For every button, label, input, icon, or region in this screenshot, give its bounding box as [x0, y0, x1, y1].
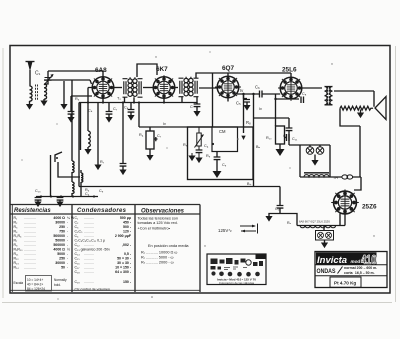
- svg-text:C₁₀: C₁₀: [275, 207, 281, 211]
- svg-text:C₇: C₇: [113, 107, 118, 111]
- svg-text:-: -: [67, 261, 69, 265]
- svg-text:TH: TH: [333, 176, 338, 180]
- svg-text:,002 -: ,002 -: [122, 243, 132, 247]
- svg-text:2 900 μμF: 2 900 μμF: [115, 234, 132, 238]
- svg-text:½: ½: [67, 248, 70, 252]
- svg-text:500000: 500000: [53, 234, 65, 238]
- svg-text:En posición onda media: En posición onda media: [148, 244, 189, 248]
- svg-text:Rₔ ........... 2000 - ω: Rₔ ........... 2000 - ω: [141, 261, 174, 265]
- svg-text:Pt 4.70 Kg: Pt 4.70 Kg: [334, 281, 356, 286]
- svg-text:C₄: C₄: [85, 192, 90, 196]
- svg-text:Todas las tensiones son: Todas las tensiones son: [138, 217, 179, 221]
- svg-text:250: 250: [59, 225, 65, 229]
- svg-text:..........: ..........: [84, 230, 94, 234]
- svg-text:-: -: [67, 252, 69, 256]
- svg-text:C₈: C₈: [302, 92, 307, 96]
- svg-text:120 -: 120 -: [123, 230, 132, 234]
- svg-text:C₈: C₈: [124, 106, 129, 110]
- svg-text:-: -: [67, 225, 69, 229]
- svg-text:Bₐ: Bₐ: [256, 145, 261, 149]
- svg-text:125V∿: 125V∿: [218, 228, 232, 233]
- svg-text:bold.: bold.: [54, 283, 61, 287]
- svg-text:R₁₃: R₁₃: [14, 261, 20, 265]
- svg-text:30000: 30000: [55, 261, 65, 265]
- svg-text:............: ............: [24, 239, 36, 243]
- svg-text:normal 200 – 600 m.: normal 200 – 600 m.: [344, 266, 377, 270]
- svg-text:............: ............: [24, 221, 36, 225]
- svg-text:Observaciones: Observaciones: [141, 209, 185, 215]
- svg-text:R₂: R₂: [14, 221, 19, 225]
- svg-text:-: -: [67, 243, 69, 247]
- svg-text:corta 16,5 – 50 m.: corta 16,5 – 50 m.: [344, 271, 375, 275]
- svg-text:-: -: [67, 230, 69, 234]
- svg-text:R₄: R₄: [14, 230, 19, 234]
- svg-text:C₉: C₉: [99, 189, 104, 193]
- svg-text:C₉: C₉: [222, 163, 227, 167]
- svg-text:C₁₆: C₁₆: [75, 261, 81, 265]
- svg-text:C₁₃ galvanico 200 -50v: C₁₃ galvanico 200 -50v: [75, 248, 111, 252]
- svg-text:R₇: R₇: [14, 239, 19, 243]
- svg-text:............: ............: [24, 225, 36, 229]
- svg-text:............: ............: [24, 230, 36, 234]
- svg-text:-: -: [67, 221, 69, 225]
- svg-text:-: -: [67, 257, 69, 261]
- svg-text:Resistencias: Resistencias: [14, 208, 51, 214]
- svg-text:150 -: 150 -: [123, 280, 132, 284]
- svg-text:C₁₃: C₁₃: [35, 189, 41, 193]
- svg-text:Condensadores: Condensadores: [77, 208, 127, 214]
- svg-text:Iv: Iv: [240, 88, 244, 93]
- svg-text:..........: ..........: [84, 216, 94, 220]
- svg-text:C₁₄: C₁₄: [75, 252, 81, 256]
- svg-text:C₁₇: C₁₇: [75, 266, 81, 270]
- svg-text:C: C: [283, 134, 286, 138]
- svg-text:6Q7: 6Q7: [222, 65, 235, 72]
- svg-text:mod: mod: [351, 259, 361, 264]
- svg-text:C₁: C₁: [35, 71, 41, 77]
- svg-text:6K7: 6K7: [156, 66, 168, 73]
- svg-text:C₁₅: C₁₅: [75, 257, 81, 261]
- svg-text:............: ............: [24, 252, 36, 256]
- svg-text:..........: ..........: [84, 266, 94, 270]
- svg-text:............: ............: [24, 234, 36, 238]
- svg-text:R₃: R₃: [14, 225, 19, 229]
- svg-text:C₃: C₃: [75, 225, 80, 229]
- svg-text:..........: ..........: [84, 280, 94, 284]
- svg-text:Escala: Escala: [14, 281, 24, 285]
- svg-text:..........: ..........: [84, 257, 94, 261]
- svg-text:..........: ..........: [84, 243, 94, 247]
- svg-text:40 = 84+2+: 40 = 84+2+: [27, 283, 43, 287]
- svg-text:C₇: C₇: [157, 134, 162, 138]
- svg-text:Rₐ: Rₐ: [287, 221, 292, 225]
- svg-text:C₂: C₂: [75, 221, 80, 225]
- svg-text:4000 Ω: 4000 Ω: [53, 248, 65, 252]
- svg-text:..........: ..........: [84, 234, 94, 238]
- svg-text:250: 250: [59, 257, 65, 261]
- svg-text:Colocación de las válvulas: Colocación de las válvulas: [219, 281, 255, 285]
- svg-text:10 = 14+4+: 10 = 14+4+: [27, 278, 43, 282]
- svg-text:5000: 5000: [57, 252, 65, 256]
- svg-text:-: -: [67, 234, 69, 238]
- svg-text:R₅: R₅: [75, 97, 80, 101]
- svg-text:R₁₁: R₁₁: [14, 252, 20, 256]
- svg-text:C₇C₈C₉C₁₀C₁₁ 0,1 μ: C₇C₈C₉C₁₀C₁₁ 0,1 μ: [75, 239, 106, 243]
- svg-text:C₁₈: C₁₈: [75, 270, 81, 274]
- svg-text:-: -: [67, 266, 69, 270]
- svg-text:50: 50: [61, 266, 65, 270]
- svg-text:R₉: R₉: [206, 154, 211, 158]
- svg-text:R₈: R₈: [246, 120, 251, 125]
- svg-text:R₁: R₁: [14, 216, 19, 220]
- svg-text:6A8 6K7 6Q7 25L6 25Z6: 6A8 6K7 6Q7 25L6 25Z6: [299, 220, 330, 224]
- svg-text:C: C: [190, 105, 193, 109]
- svg-text:750: 750: [59, 230, 65, 234]
- svg-text:..........: ..........: [84, 261, 94, 265]
- svg-text:............: ............: [24, 257, 36, 261]
- svg-text:............: ............: [24, 243, 36, 247]
- svg-text:C₁₁: C₁₁: [292, 137, 298, 141]
- svg-text:T₂: T₂: [117, 97, 121, 101]
- svg-text:Iv: Iv: [259, 107, 262, 111]
- svg-text:+Con el Voltimetro•​: +Con el Voltimetro•​: [138, 227, 171, 231]
- svg-text:50000: 50000: [55, 239, 65, 243]
- svg-text:CV control de volumen: CV control de volumen: [75, 288, 110, 292]
- svg-text:25Z6: 25Z6: [362, 204, 377, 211]
- svg-text:Invicta: Invicta: [317, 255, 347, 266]
- svg-text:C₁: C₁: [75, 216, 80, 220]
- svg-text:tomadas a 125 Vdc red.: tomadas a 125 Vdc red.: [138, 221, 178, 225]
- svg-text:..........: ..........: [84, 225, 94, 229]
- svg-text:ONDAS: ONDAS: [317, 268, 336, 275]
- svg-text:B₊: B₊: [247, 182, 252, 186]
- svg-text:C₄: C₄: [204, 144, 209, 148]
- svg-text:R₈: R₈: [14, 243, 19, 247]
- svg-text:R₁₀: R₁₀: [266, 136, 272, 140]
- svg-text:............: ............: [24, 216, 36, 220]
- svg-text:500 -: 500 -: [123, 225, 132, 229]
- svg-text:C₁₉: C₁₉: [75, 280, 81, 284]
- svg-text:R₉: R₉: [183, 143, 188, 147]
- svg-text:30 = 30 -: 30 = 30 -: [117, 261, 132, 265]
- svg-text:..........: ..........: [84, 221, 94, 225]
- svg-text:..........: ..........: [84, 270, 94, 274]
- svg-text:R₉R₁₀: R₉R₁₀: [14, 248, 24, 252]
- svg-text:Rₓ ........... 5000 - ω: Rₓ ........... 5000 - ω: [141, 256, 174, 260]
- svg-text:-: -: [67, 239, 69, 243]
- svg-text:Rₒ ........... 10000 Ω ω: Rₒ ........... 10000 Ω ω: [141, 251, 177, 255]
- svg-text:84 = 126+24: 84 = 126+24: [27, 287, 45, 291]
- svg-text:4000 Ω: 4000 Ω: [53, 216, 65, 220]
- svg-text:500 μμ: 500 μμ: [120, 216, 131, 220]
- svg-text:..........: ..........: [84, 252, 94, 256]
- svg-text:10 = 150 -: 10 = 150 -: [115, 266, 132, 270]
- svg-text:C₄C₅: C₄C₅: [75, 230, 83, 234]
- svg-text:R₄: R₄: [139, 133, 144, 137]
- svg-text:............: ............: [24, 261, 36, 265]
- svg-text:64 = 300 -: 64 = 300 -: [115, 270, 132, 274]
- svg-text:0,5 -: 0,5 -: [124, 252, 132, 256]
- svg-text:C₆: C₆: [255, 85, 260, 90]
- svg-text:C₁₂: C₁₂: [75, 243, 81, 247]
- svg-text:CM: CM: [219, 129, 226, 134]
- svg-text:R₅R₆: R₅R₆: [14, 234, 22, 238]
- svg-text:500000: 500000: [53, 243, 65, 247]
- svg-text:R₁₄: R₁₄: [14, 266, 20, 270]
- svg-text:Iv: Iv: [163, 122, 166, 126]
- svg-text:R₁₂: R₁₂: [14, 257, 20, 261]
- svg-text:450 -: 450 -: [123, 221, 132, 225]
- svg-text:............: ............: [24, 266, 36, 270]
- svg-text:Normally: Normally: [54, 278, 67, 282]
- svg-text:............: ............: [24, 248, 36, 252]
- svg-text:C₅: C₅: [236, 101, 241, 106]
- svg-text:C₄: C₄: [88, 109, 93, 113]
- svg-text:C₆: C₆: [75, 234, 80, 238]
- svg-text:50 = 30 -: 50 = 30 -: [117, 257, 132, 261]
- svg-text:R₇: R₇: [100, 160, 105, 164]
- svg-text:30000: 30000: [55, 221, 65, 225]
